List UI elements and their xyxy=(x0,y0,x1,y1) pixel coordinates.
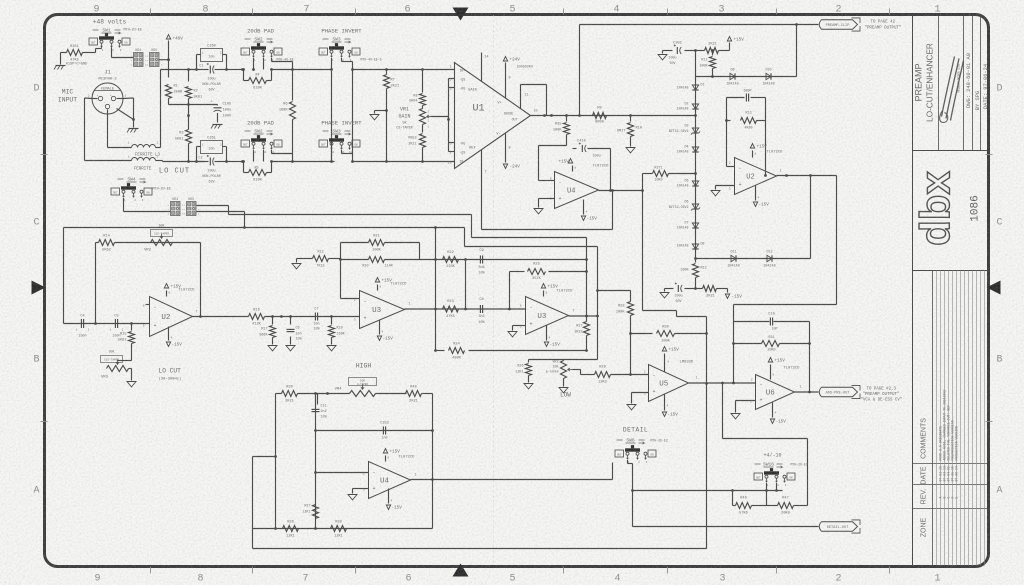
potentiometer VR3 bottom xyxy=(101,356,123,363)
wire lower rail to pad xyxy=(227,161,243,163)
wire enhance bus 2 descent xyxy=(464,228,466,247)
wire detail out xyxy=(632,491,634,527)
wire R23 branch xyxy=(436,308,526,310)
diode D2 xyxy=(692,104,698,109)
resistor R37 xyxy=(313,505,319,519)
capacitor C8 series xyxy=(479,305,481,313)
op-amp U5 xyxy=(649,365,689,402)
wire ferrite L3 to top rail xyxy=(156,147,161,149)
resistor R21 xyxy=(369,240,385,246)
resistor R23 xyxy=(443,306,459,312)
U4 high pin3 ground xyxy=(353,488,369,490)
wire SW4 to header xyxy=(123,198,125,212)
capacitor C5 xyxy=(114,319,116,328)
U5 +15V xyxy=(664,354,666,372)
U2 filter +15V xyxy=(166,291,168,297)
ground VR3 xyxy=(129,368,132,370)
resistor R38 xyxy=(331,526,347,532)
potentiometer VR2 LOW xyxy=(563,360,565,361)
wire preamp-clip riser xyxy=(579,25,581,116)
switch SW4 xyxy=(111,188,120,195)
flag PREAMP-CLIP xyxy=(819,20,857,30)
switch SW4 label xyxy=(118,178,124,180)
diode D6 xyxy=(692,181,698,186)
op-amp U6 xyxy=(756,375,795,410)
U1 pin 9 +24V xyxy=(505,63,507,98)
capacitor C9 xyxy=(479,256,481,264)
resistor R47 xyxy=(767,505,778,507)
U2 filter output xyxy=(193,316,249,318)
wire SW16 feed xyxy=(722,383,724,439)
resistor R2 xyxy=(187,68,190,71)
power -15V ladder xyxy=(727,289,729,293)
wire D12 riser to U2 output xyxy=(810,176,812,259)
wire HD5 to bus2 xyxy=(197,211,245,213)
ground ladder cap xyxy=(664,289,666,292)
diode ladder wire xyxy=(695,51,697,259)
U1 pin 8 -24V xyxy=(505,134,507,163)
resistor R6 pad shunt xyxy=(292,70,294,101)
wire HD5 to bus1 xyxy=(197,205,229,207)
resistor R14 xyxy=(96,242,99,244)
resistor R11 xyxy=(711,49,714,52)
wire divider to LOW pot xyxy=(564,359,598,361)
op-amp U4 high xyxy=(369,462,411,499)
wire R46 left xyxy=(732,491,734,506)
resistor R27 xyxy=(584,322,590,336)
op-amp U3b xyxy=(526,297,569,335)
flag DETAIL-OUT xyxy=(819,522,857,532)
resistor R351 xyxy=(61,52,67,54)
wire R35 to U4 pin6 xyxy=(539,145,567,147)
resistor R5 bypass xyxy=(242,160,245,163)
feedback R25 loop xyxy=(509,272,511,310)
feedback box U2 xyxy=(726,98,728,167)
title block outline xyxy=(912,15,914,566)
resistor R31 xyxy=(734,343,762,345)
ground VR2 xyxy=(559,388,568,393)
resistor R24 xyxy=(436,350,445,352)
U6 pin3 ground xyxy=(736,400,756,402)
resistor R3 xyxy=(188,116,190,130)
feedback loop U2 filter xyxy=(95,243,97,324)
resistor 2K21 ladder xyxy=(696,288,703,290)
chassis ground C105 xyxy=(213,124,223,126)
U3b pin5 ground xyxy=(513,325,526,327)
resistor R40 xyxy=(406,391,422,397)
resistor R20 xyxy=(341,259,369,261)
wire diode row D9 D10 xyxy=(696,76,797,78)
U5 output xyxy=(689,382,756,384)
flag ADD-PRE-OUT xyxy=(819,387,857,397)
wire enhance bus 2 xyxy=(64,227,465,229)
right loop vertical xyxy=(432,394,434,529)
U4 high -15V xyxy=(388,489,390,504)
wire U4 out to detail switch xyxy=(433,479,613,481)
resistor R25 xyxy=(528,269,546,275)
header HD5 bottom xyxy=(187,202,197,216)
U4 high output xyxy=(411,479,433,481)
resistor R7 xyxy=(386,70,388,75)
capacitor C11 xyxy=(317,394,319,405)
resistor R8 xyxy=(422,70,424,93)
zone ticks bottom xyxy=(150,567,152,574)
U3a output xyxy=(405,308,436,310)
power +48V node xyxy=(159,59,169,61)
U5 -15V xyxy=(664,395,666,411)
resistor R10 OMIT xyxy=(630,116,632,122)
alignment arrow bottom xyxy=(453,564,469,577)
wire SW1 to headers xyxy=(111,48,113,58)
revision table grid xyxy=(932,271,934,566)
U2 clip +15V xyxy=(752,151,754,158)
wire ferrite lower to rail xyxy=(156,160,163,162)
wire VR1 wiper to U1 xyxy=(431,116,449,118)
U1 pin 11 sense loop xyxy=(520,85,522,109)
resistor R15 xyxy=(131,324,133,331)
resistor R22 xyxy=(443,257,459,263)
capacitor C11 body xyxy=(312,408,320,410)
ground VR1 network xyxy=(375,110,387,112)
diode D7 xyxy=(692,223,698,228)
resistor 2K21 clip xyxy=(705,48,719,54)
U2 clip output xyxy=(777,175,837,177)
resistor R26 xyxy=(528,360,530,363)
column U3b out xyxy=(586,238,588,322)
wire R271 snake xyxy=(642,174,644,311)
U4 buffer output wire xyxy=(599,190,643,192)
resistor R1 xyxy=(168,61,170,78)
op-amp U1 xyxy=(455,63,531,169)
switch SW16 xyxy=(754,473,763,480)
wire C353 row xyxy=(316,430,433,432)
wire lower rail to U1 pin10 xyxy=(353,161,455,163)
wire SW6 down xyxy=(627,460,629,464)
potentiometer VR1 GAIN xyxy=(420,109,426,125)
wire J1 pin3 down xyxy=(107,110,109,148)
resistor R13 shelf xyxy=(309,258,313,260)
wire stub 456 xyxy=(253,456,276,458)
fold line xyxy=(493,16,495,566)
ground R13 shelf xyxy=(297,258,309,260)
op-amp U4 buffer xyxy=(555,172,599,209)
U1 pin 7 loop to U4 buffer xyxy=(481,150,483,230)
wire U5 inverting node xyxy=(630,334,632,375)
capacitor ladder bypass xyxy=(677,285,679,292)
left outer vertical xyxy=(252,457,254,549)
diode D12 xyxy=(767,255,772,261)
ground C302 xyxy=(663,50,673,52)
vertical join U3a xyxy=(435,228,437,351)
capacitor C261 xyxy=(201,141,223,154)
wire rail to U1 pin1 xyxy=(353,69,455,71)
U6 output wire xyxy=(795,391,819,393)
op-amp U3a xyxy=(360,291,405,329)
resistor R28 xyxy=(630,291,632,302)
title column line 4 xyxy=(980,15,982,151)
resistor R053 xyxy=(422,131,424,133)
vertical mid column xyxy=(315,394,317,529)
header HD4 bottom xyxy=(171,202,181,216)
resistor R30 feedback xyxy=(631,333,653,335)
lower rail wire xyxy=(184,161,205,163)
wire R15 to VR3 wiper xyxy=(118,360,132,362)
U6 -15V xyxy=(772,403,774,418)
power +15V clip xyxy=(729,43,731,51)
capacitor C410 xyxy=(581,145,583,152)
chassis ground J1 xyxy=(133,120,135,128)
wire to U3a pin3 xyxy=(265,316,360,318)
U3b output xyxy=(569,315,598,317)
ferrite bead lower xyxy=(132,158,156,161)
resistor R12 xyxy=(695,259,697,263)
wire U2 output riser to U6 xyxy=(836,176,838,305)
zone ticks right xyxy=(986,154,993,156)
switch SW3 bottom xyxy=(319,140,328,147)
wire filter input xyxy=(64,323,150,325)
capacitor C353 xyxy=(382,427,384,435)
potentiometer VR3 top xyxy=(151,240,173,246)
diode D8 xyxy=(692,244,698,249)
switch SW3 top xyxy=(319,48,328,55)
bottom row wire xyxy=(253,528,433,530)
capacitor C260 xyxy=(201,49,223,62)
alignment arrow left xyxy=(32,281,46,295)
U5 pin3 ground xyxy=(632,392,649,394)
phase invert cross wires xyxy=(331,70,333,162)
capacitor C4 xyxy=(80,319,82,328)
wire D10 to flag riser xyxy=(796,25,798,77)
resistor R16 xyxy=(249,314,265,320)
op-amp U2 clip xyxy=(735,158,777,195)
switch SW1 label xyxy=(93,29,99,31)
ground R26 xyxy=(524,384,533,389)
wire enhance bus 1 descent xyxy=(471,215,473,238)
zone ticks left xyxy=(41,154,48,156)
resistor R46 xyxy=(733,505,736,507)
U3a -15V xyxy=(379,321,381,335)
resistor R17 xyxy=(272,317,274,325)
wire SW16 contacts xyxy=(766,483,768,506)
capacitor C7 series xyxy=(314,313,316,321)
wire J1 pin1 right xyxy=(117,98,123,100)
U4 buffer +15V xyxy=(572,166,574,172)
resistor R271 xyxy=(694,172,697,175)
wire enhance bus 1 xyxy=(229,214,472,216)
capacitor C10 fb xyxy=(769,318,771,326)
ground C6 xyxy=(286,346,295,351)
U1 output xyxy=(531,115,552,117)
diode D11 xyxy=(731,255,736,261)
U3b -15V xyxy=(546,326,548,341)
alignment arrow top xyxy=(453,8,469,21)
wire VR2 wiper to R29 xyxy=(573,369,581,371)
U1 pin 14 stub xyxy=(481,53,483,82)
ground R19 xyxy=(327,346,336,351)
U4 buffer pin5 ground stub xyxy=(539,198,555,200)
feedback rails U3a xyxy=(341,242,369,244)
wire top rail to pad xyxy=(227,69,243,71)
capacitor C1 xyxy=(209,66,211,74)
bottom bus wire xyxy=(253,548,707,550)
ferrite bead L3 xyxy=(132,145,156,148)
wire ladder node xyxy=(694,257,697,260)
header HD5 top xyxy=(150,53,160,67)
switch SW2 bottom xyxy=(241,140,250,147)
capacitor C302 xyxy=(676,47,678,54)
switch SW6 xyxy=(615,450,624,457)
resistor R39 xyxy=(276,393,282,395)
feedback box U6 xyxy=(733,322,735,384)
alignment arrow right xyxy=(987,281,1001,295)
wire lo-cut input riser xyxy=(63,228,65,324)
logo signature xyxy=(942,57,964,121)
capacitor C8 feedback xyxy=(745,94,747,102)
U3b +15V xyxy=(543,291,545,297)
U2 clip pin3 ground xyxy=(716,185,735,187)
resistor R29 xyxy=(595,372,611,378)
wire J1 pin2 left xyxy=(92,98,97,100)
U2 clip -15V xyxy=(755,186,757,201)
title column line xyxy=(938,15,940,151)
switch SW2 top xyxy=(241,48,250,55)
U2 filter -15V xyxy=(168,327,170,341)
wire ladder top xyxy=(694,49,697,52)
U4 buffer -15V xyxy=(583,200,585,215)
U4 high +15V xyxy=(385,456,387,462)
wire R7 to lower rail xyxy=(386,111,388,162)
vertical C9 to C8 xyxy=(465,260,467,310)
left loop vertical xyxy=(275,394,277,529)
chassis ground 01SP=C=GND xyxy=(60,53,62,65)
U3a +15V xyxy=(377,285,379,291)
switch SW1 xyxy=(89,38,98,45)
diode D4 xyxy=(692,147,698,152)
wire U5 feedback right xyxy=(706,317,708,384)
title column line 2 xyxy=(963,15,965,151)
U2 filter pins xyxy=(146,304,150,306)
resistor R13 enh xyxy=(727,120,731,122)
op-amp U2 filter xyxy=(150,297,193,337)
capacitor C6 xyxy=(290,317,292,325)
top rail wire xyxy=(161,69,197,71)
wire diode output row xyxy=(696,258,811,260)
ground R17 xyxy=(268,346,277,351)
title column line 3 xyxy=(972,15,974,151)
header HD4 top xyxy=(134,53,144,67)
capacitor C2 xyxy=(209,158,211,166)
wire J1 case diagonal xyxy=(117,109,134,120)
resistor R4 bypass xyxy=(242,68,245,71)
diode D10 xyxy=(766,73,771,79)
zener D6b xyxy=(692,204,698,209)
U6 +15V xyxy=(770,365,772,380)
wire R22 branch xyxy=(436,259,587,261)
wire rail after pad xyxy=(272,69,331,71)
wire U3b out to divider xyxy=(597,247,599,360)
resistor R19 xyxy=(331,317,333,325)
diode D9 xyxy=(730,73,735,79)
zone ticks top xyxy=(150,9,152,15)
wire U5 out to bottom bus xyxy=(706,384,708,549)
potentiometer VR4 xyxy=(349,378,377,386)
resistor R35 xyxy=(566,116,568,122)
capacitor C105 xyxy=(189,104,218,106)
resistor R36 xyxy=(283,526,299,532)
wire sense line xyxy=(552,115,696,117)
wire detail bus xyxy=(633,490,783,492)
resistor R9 xyxy=(593,113,607,119)
diode D1 xyxy=(692,85,698,90)
zener D3 xyxy=(692,128,698,133)
ground R10 xyxy=(626,148,635,153)
wire lower rail after pad xyxy=(272,161,335,163)
